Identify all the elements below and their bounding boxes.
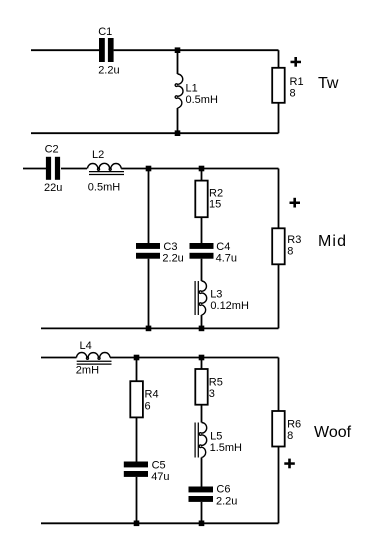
node mid junction C3 top [146,166,152,172]
wire C5 to bottom [136,477,138,523]
wire right rail tweeter top [278,50,280,68]
wire L5 to C6 [201,458,203,487]
svg-text:C1: C1 [98,26,112,38]
capacitor C1 [99,38,114,62]
node woofer junction R4 top [134,355,140,361]
wire tweeter top-left [31,49,99,51]
svg-text:8: 8 [287,246,293,258]
plus sign mid [290,198,301,208]
inductor L3 [195,281,207,315]
svg-text:C5: C5 [152,459,166,471]
node woofer junction C6 bottom [199,521,205,527]
resistor R3 [272,228,285,264]
wire right rail woofer top [278,358,280,412]
wire L3 to bottom [201,315,203,328]
svg-text:L4: L4 [80,340,92,352]
wire woofer bottom [41,522,279,524]
svg-text:15: 15 [209,199,221,211]
capacitor C4 [190,243,214,259]
svg-text:2mH: 2mH [76,364,99,376]
node tweeter junction top [175,47,181,53]
svg-text:8: 8 [290,87,296,99]
svg-text:2.2u: 2.2u [162,253,183,265]
inductor L4 [77,353,112,365]
node tweeter junction bottom [175,130,181,136]
inductor L5 [195,423,207,458]
inductor L2 [88,163,125,174]
wire right rail mid top [278,169,280,229]
inductor L1 [175,74,183,108]
resistor R4 [130,381,143,417]
wire tweeter top-right [114,49,279,51]
wire woofer input [41,357,77,359]
plus sign tweeter [291,57,302,67]
svg-text:R1: R1 [290,76,304,88]
svg-text:Woof: Woof [314,424,352,441]
wire woofer after L4 [110,357,279,359]
svg-text:47u: 47u [151,471,169,483]
node woofer junction C5 bottom [134,521,140,527]
svg-text:L3: L3 [210,289,222,301]
svg-text:C3: C3 [163,241,177,253]
wire right rail mid bottom [278,264,280,328]
wire C4 to L3 [201,259,203,281]
wire C3 branch top [148,169,150,244]
svg-text:R5: R5 [209,376,223,388]
svg-text:Tw: Tw [318,75,339,92]
svg-text:2.2u: 2.2u [216,495,237,507]
svg-text:0.12mH: 0.12mH [210,300,249,312]
svg-text:4.7u: 4.7u [216,253,237,265]
node mid junction L3 bottom [199,326,205,332]
resistor R2 [195,181,207,218]
wire right rail tweeter bottom [278,103,280,133]
wire tweeter bottom [31,132,279,134]
wire mid input [23,168,46,170]
svg-text:3: 3 [209,388,215,400]
svg-text:22u: 22u [44,182,62,194]
svg-text:L1: L1 [186,83,198,95]
svg-text:C4: C4 [216,241,230,253]
capacitor C5 [124,462,148,477]
svg-text:8: 8 [287,430,293,442]
plus sign woofer [284,459,295,469]
capacitor C6 [189,487,214,502]
svg-text:Mid: Mid [318,233,347,250]
node mid junction R2 top [199,166,205,172]
resistor R1 [272,68,285,103]
wire mid bottom [41,327,279,329]
node woofer junction R5 top [199,355,205,361]
wire R2 branch top [201,169,203,181]
svg-text:R3: R3 [287,234,301,246]
svg-text:1.5mH: 1.5mH [210,442,242,454]
wire mid after L2 [121,168,278,170]
svg-text:0.5mH: 0.5mH [186,94,218,106]
wire mid after C2 [61,168,87,170]
wire R2 to C4 [201,217,203,243]
wire C3 branch bottom [148,259,150,329]
capacitor C2 [46,157,60,180]
svg-text:C2: C2 [45,143,59,155]
svg-text:R4: R4 [145,389,159,401]
capacitor C3 [136,243,160,259]
svg-text:L5: L5 [210,431,222,443]
svg-text:C6: C6 [216,484,230,496]
wire R5 to L5 [201,405,203,423]
resistor R6 [272,411,285,447]
svg-text:L2: L2 [92,149,104,161]
svg-text:2.2u: 2.2u [98,64,119,76]
svg-text:6: 6 [145,400,151,412]
node mid junction C3 bottom [146,326,152,332]
wire right rail woofer bottom [278,447,280,524]
wire L1 branch top [177,50,179,74]
resistor R5 [195,369,207,405]
wire R4 to C5 [136,417,138,461]
svg-text:0.5mH: 0.5mH [88,182,120,194]
wire R5 branch top [201,358,203,370]
wire C6 to bottom [201,502,203,523]
svg-text:R6: R6 [287,419,301,431]
wire L1 branch bottom [177,108,179,133]
wire R4 branch top [136,358,138,382]
